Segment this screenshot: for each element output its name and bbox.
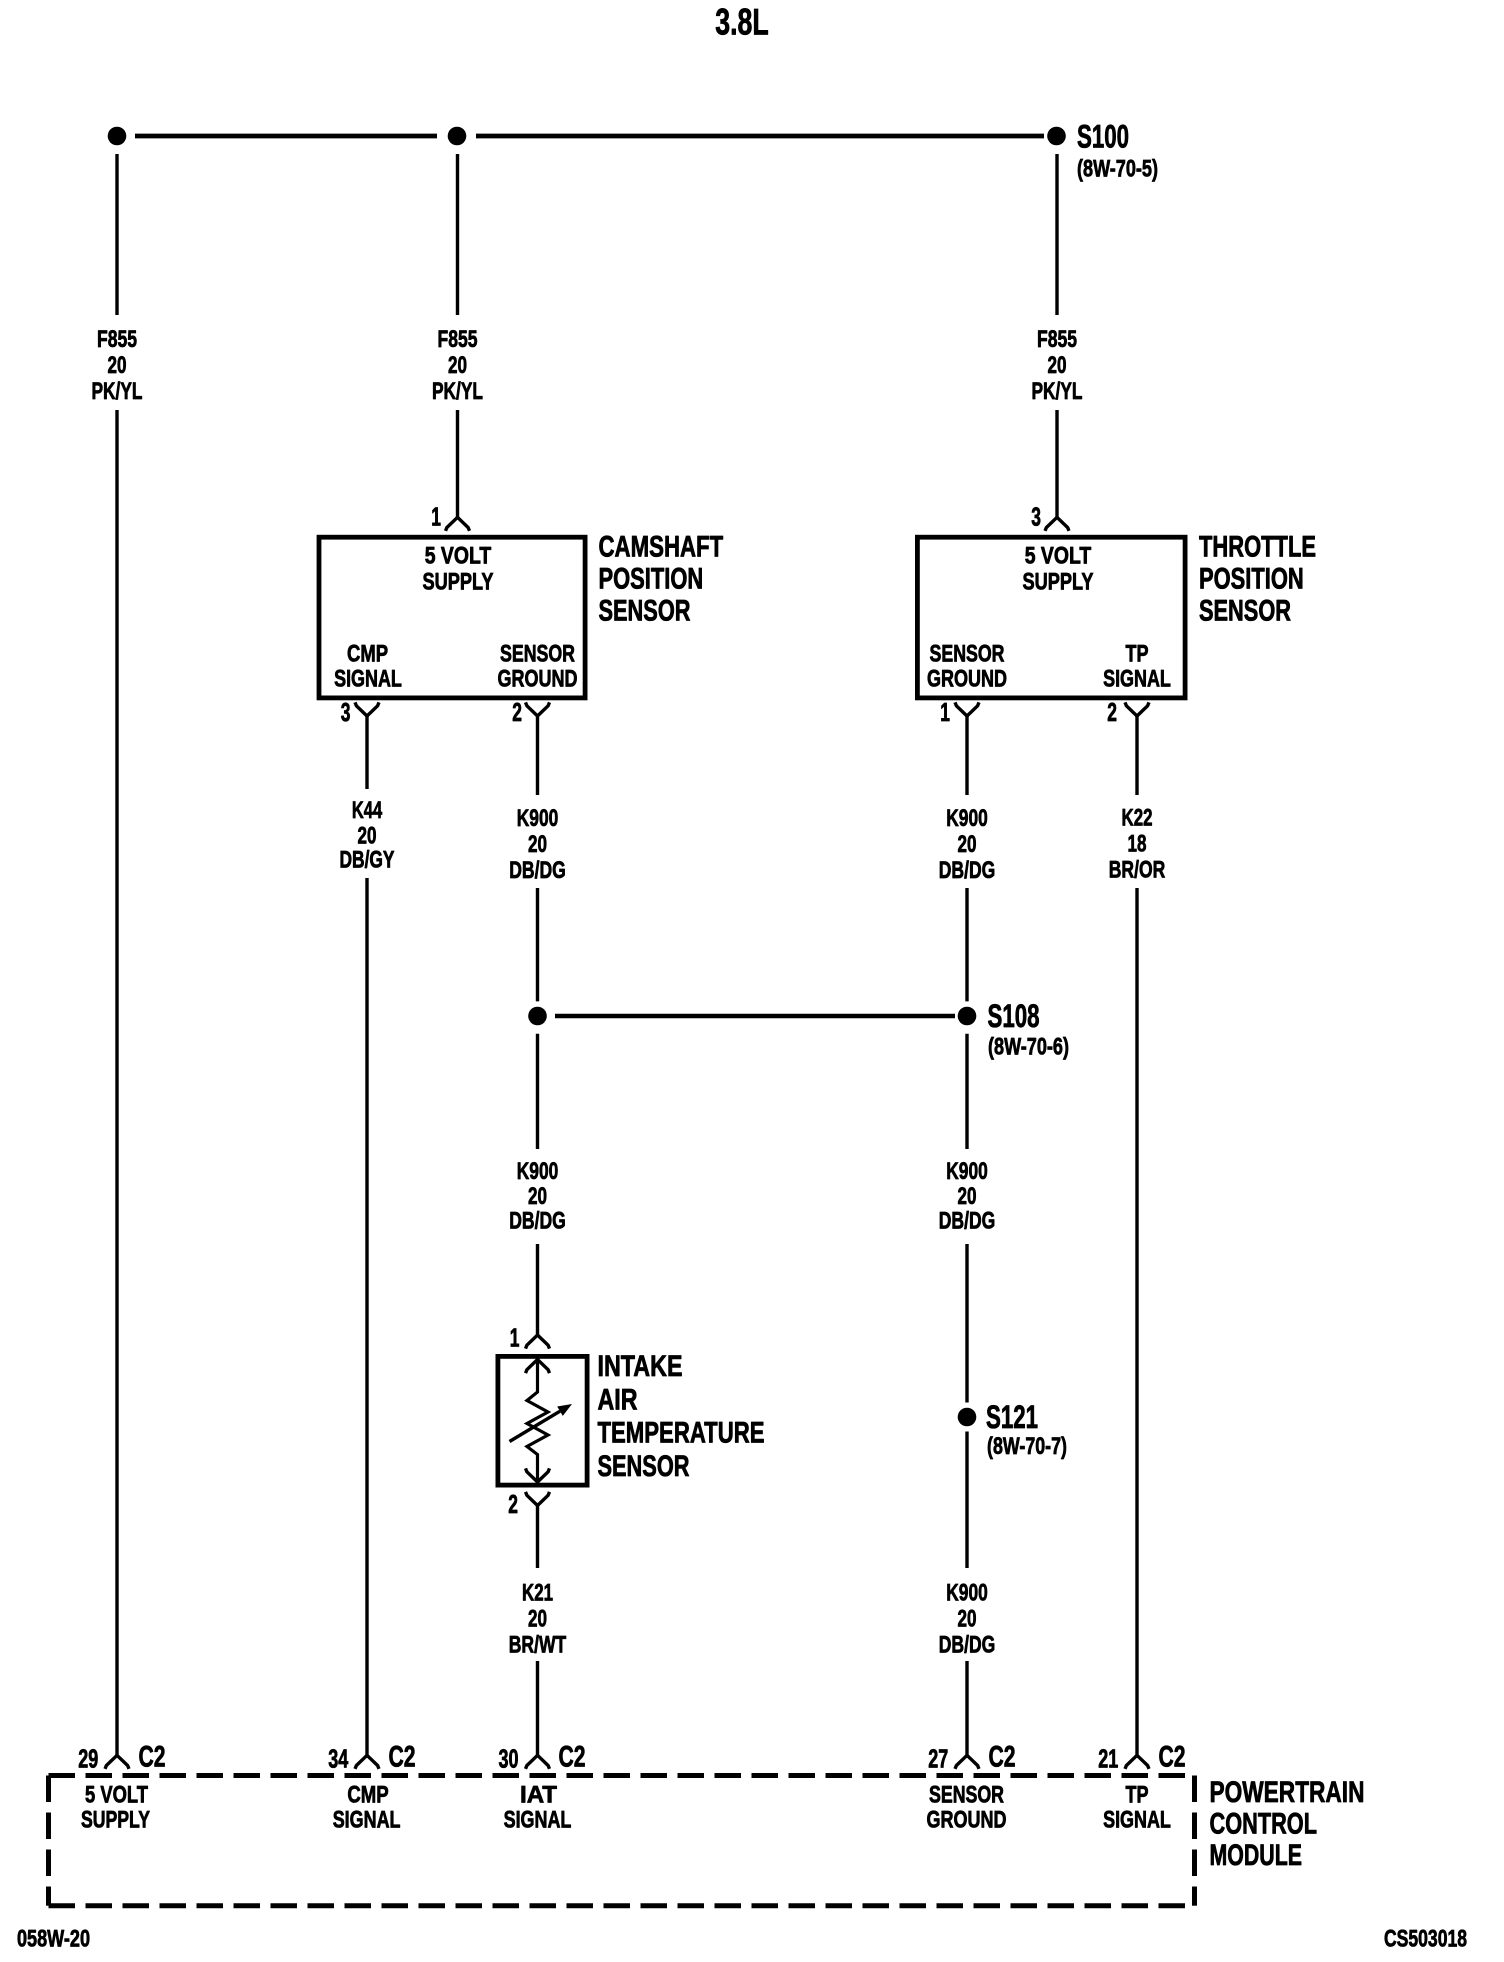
svg-text:CS503018: CS503018 (1384, 1926, 1467, 1953)
svg-text:K900: K900 (517, 805, 559, 832)
pin 1 TP sensor-ground connector (940, 699, 979, 727)
wire F855 left segment (115, 154, 118, 1756)
svg-text:5 VOLT: 5 VOLT (425, 543, 492, 570)
label THROTTLE POSITION SENSOR (1199, 531, 1316, 628)
junction dot left bus (108, 127, 127, 146)
svg-text:20: 20 (358, 823, 377, 850)
svg-text:K900: K900 (946, 1580, 988, 1607)
svg-text:SIGNAL: SIGNAL (333, 1807, 401, 1834)
svg-text:POSITION: POSITION (1199, 563, 1304, 596)
label TP SIGNAL (1103, 641, 1171, 693)
svg-text:TEMPERATURE: TEMPERATURE (598, 1417, 765, 1450)
svg-text:20: 20 (528, 1606, 547, 1633)
pin 1 intake air temperature sensor connector (510, 1325, 550, 1353)
label wire K900 20 DB/DG mid-left (509, 1158, 566, 1235)
wire F855 right segment (1055, 154, 1058, 518)
svg-text:CMP: CMP (347, 1782, 388, 1809)
svg-text:K900: K900 (517, 1158, 559, 1185)
svg-text:20: 20 (528, 831, 547, 858)
pin 34 C2 PCM CMP signal (328, 1741, 415, 1774)
wire K900 below S121 (965, 1432, 968, 1757)
label wire K22 18 BR/OR (1109, 805, 1166, 884)
wire F855 middle segment (456, 154, 459, 518)
svg-text:20: 20 (1048, 352, 1067, 379)
svg-text:3: 3 (1031, 504, 1041, 532)
svg-text:IAT: IAT (520, 1782, 557, 1809)
label SENSOR GROUND (TP) (927, 641, 1007, 693)
svg-text:DB/GY: DB/GY (340, 847, 395, 874)
svg-text:1: 1 (431, 504, 441, 532)
svg-text:SIGNAL: SIGNAL (1103, 666, 1171, 693)
svg-text:27: 27 (928, 1746, 948, 1774)
svg-text:21: 21 (1098, 1746, 1118, 1774)
svg-text:SENSOR: SENSOR (1199, 595, 1291, 628)
svg-text:SENSOR: SENSOR (929, 1782, 1004, 1809)
svg-text:F855: F855 (97, 326, 137, 353)
label CAMSHAFT POSITION SENSOR (599, 531, 724, 628)
svg-text:POSITION: POSITION (599, 563, 704, 596)
svg-text:BR/WT: BR/WT (509, 1632, 567, 1659)
svg-text:(8W-70-6): (8W-70-6) (988, 1034, 1069, 1061)
label SENSOR GROUND (PCM) (927, 1782, 1007, 1834)
svg-text:CMP: CMP (347, 641, 388, 668)
pin 29 C2 PCM 5-volt supply (78, 1741, 165, 1774)
pin 21 C2 PCM TP signal (1098, 1741, 1185, 1774)
svg-text:(8W-70-7): (8W-70-7) (987, 1433, 1067, 1460)
intake air temperature sensor box (498, 1356, 587, 1485)
wire S108 tie horizontal (555, 1014, 955, 1018)
svg-text:S108: S108 (988, 998, 1040, 1034)
pin 2 CMP sensor-ground connector (512, 699, 549, 727)
svg-text:34: 34 (328, 1746, 349, 1774)
splice S121 (958, 1399, 1067, 1460)
label wire K44 20 DB/GY (340, 797, 395, 874)
svg-text:INTAKE: INTAKE (598, 1350, 683, 1383)
svg-text:(8W-70-5): (8W-70-5) (1077, 156, 1158, 183)
pin 30 C2 PCM IAT signal (499, 1741, 586, 1774)
svg-text:DB/DG: DB/DG (939, 857, 996, 884)
svg-text:SUPPLY: SUPPLY (423, 569, 494, 596)
svg-text:CAMSHAFT: CAMSHAFT (599, 531, 724, 564)
splice S100 (1047, 119, 1158, 183)
svg-text:3.8L: 3.8L (715, 2, 769, 43)
svg-text:GROUND: GROUND (927, 1807, 1007, 1834)
label wire K21 20 BR/WT (509, 1580, 567, 1659)
label wire K900 20 DB/DG upper-right (939, 805, 996, 884)
wire K900 to S121 (965, 1034, 968, 1403)
svg-text:20: 20 (958, 831, 977, 858)
label POWERTRAIN CONTROL MODULE (1210, 1776, 1365, 1872)
svg-text:DB/DG: DB/DG (509, 1208, 566, 1235)
wire K900 to IAT sensor (536, 1034, 539, 1336)
wire K900 from TP pin 1 (965, 715, 968, 1001)
svg-text:PK/YL: PK/YL (92, 378, 143, 405)
camshaft position sensor box (319, 537, 585, 698)
label wire F855 20 PK/YL left (92, 326, 143, 405)
svg-text:20: 20 (958, 1606, 977, 1633)
svg-text:SIGNAL: SIGNAL (504, 1807, 572, 1834)
wire K900 from CMP pin 2 (536, 715, 539, 1001)
svg-text:TP: TP (1126, 641, 1149, 668)
svg-text:30: 30 (499, 1746, 519, 1774)
junction dot S108 left (528, 1007, 547, 1026)
svg-text:20: 20 (958, 1183, 977, 1210)
svg-text:GROUND: GROUND (498, 666, 578, 693)
label SENSOR GROUND (CMP) (498, 641, 578, 693)
label CMP SIGNAL (PCM) (333, 1782, 401, 1834)
thermistor element IAT (510, 1360, 573, 1481)
svg-text:S100: S100 (1077, 119, 1129, 155)
svg-text:PK/YL: PK/YL (1032, 378, 1083, 405)
svg-text:BR/OR: BR/OR (1109, 857, 1166, 884)
svg-text:2: 2 (508, 1491, 518, 1519)
label wire F855 20 PK/YL right (1032, 326, 1083, 405)
svg-text:1: 1 (510, 1325, 520, 1353)
wire K44 segment (365, 715, 368, 1756)
svg-text:20: 20 (528, 1183, 547, 1210)
svg-text:SENSOR: SENSOR (500, 641, 575, 668)
pin 2 TP signal connector (1107, 699, 1149, 727)
svg-text:SIGNAL: SIGNAL (1103, 1807, 1171, 1834)
connector chevron inside IAT top (526, 1360, 550, 1374)
label 5 VOLT SUPPLY (CMP) (423, 543, 494, 596)
connector chevron inside IAT bottom (526, 1468, 550, 1482)
svg-text:THROTTLE: THROTTLE (1199, 531, 1316, 564)
svg-text:K900: K900 (946, 805, 988, 832)
svg-text:GROUND: GROUND (927, 666, 1007, 693)
wire K21 segment (536, 1505, 539, 1757)
svg-text:5 VOLT: 5 VOLT (85, 1782, 148, 1809)
label TP SIGNAL (PCM) (1103, 1782, 1171, 1834)
powertrain control module box (dashed) (49, 1776, 1195, 1906)
svg-text:K21: K21 (522, 1580, 553, 1607)
throttle position sensor box (917, 537, 1185, 698)
svg-text:MODULE: MODULE (1210, 1839, 1303, 1872)
svg-text:K44: K44 (352, 797, 383, 824)
svg-text:F855: F855 (438, 326, 478, 353)
label CMP SIGNAL (334, 641, 402, 693)
svg-text:SENSOR: SENSOR (598, 1450, 690, 1483)
svg-text:POWERTRAIN: POWERTRAIN (1210, 1776, 1365, 1809)
svg-text:F855: F855 (1037, 326, 1077, 353)
label 5 VOLT SUPPLY (PCM) (81, 1782, 150, 1834)
pin 3 CMP signal connector (341, 699, 379, 727)
svg-text:2: 2 (1107, 699, 1117, 727)
svg-text:5 VOLT: 5 VOLT (1025, 543, 1092, 570)
svg-text:SUPPLY: SUPPLY (81, 1807, 150, 1834)
svg-text:20: 20 (448, 352, 467, 379)
label wire K900 20 DB/DG upper-left (509, 805, 566, 884)
label wire F855 20 PK/YL middle (432, 326, 483, 405)
svg-text:C2: C2 (389, 1741, 416, 1774)
svg-text:K22: K22 (1122, 805, 1153, 832)
svg-text:C2: C2 (559, 1741, 586, 1774)
svg-text:DB/DG: DB/DG (939, 1632, 996, 1659)
label IAT SIGNAL (PCM) (504, 1782, 572, 1834)
svg-text:C2: C2 (139, 1741, 166, 1774)
pin 1 camshaft position sensor connector (431, 504, 469, 532)
svg-text:AIR: AIR (598, 1384, 638, 1417)
svg-text:SENSOR: SENSOR (599, 595, 691, 628)
svg-text:DB/DG: DB/DG (939, 1208, 996, 1235)
svg-text:PK/YL: PK/YL (432, 378, 483, 405)
junction dot middle bus (448, 127, 467, 146)
svg-text:TP: TP (1126, 1782, 1149, 1809)
svg-text:3: 3 (341, 699, 351, 727)
svg-text:C2: C2 (989, 1741, 1016, 1774)
splice S108 (958, 998, 1069, 1061)
label 5 VOLT SUPPLY (TP) (1023, 543, 1094, 596)
svg-text:CONTROL: CONTROL (1210, 1808, 1318, 1841)
svg-text:K900: K900 (946, 1158, 988, 1185)
label wire K900 20 DB/DG mid-right (939, 1158, 996, 1235)
pin 3 throttle position sensor connector (1031, 504, 1069, 532)
svg-text:058W-20: 058W-20 (17, 1926, 90, 1953)
svg-text:SIGNAL: SIGNAL (334, 666, 402, 693)
svg-text:C2: C2 (1159, 1741, 1186, 1774)
wire K22 segment (1135, 715, 1138, 1756)
svg-text:SUPPLY: SUPPLY (1023, 569, 1094, 596)
wire F855 bus horizontal (135, 134, 1044, 139)
svg-text:S121: S121 (986, 1399, 1038, 1435)
label INTAKE AIR TEMPERATURE SENSOR (598, 1350, 765, 1483)
svg-text:20: 20 (108, 352, 127, 379)
svg-text:29: 29 (78, 1746, 98, 1774)
svg-text:18: 18 (1128, 831, 1147, 858)
label wire K900 20 DB/DG lower (939, 1580, 996, 1659)
pin 27 C2 PCM sensor ground (928, 1741, 1015, 1774)
svg-text:2: 2 (512, 699, 522, 727)
svg-text:DB/DG: DB/DG (509, 857, 566, 884)
svg-text:1: 1 (940, 699, 950, 727)
svg-text:SENSOR: SENSOR (930, 641, 1005, 668)
pin 2 intake air temperature sensor connector (508, 1491, 549, 1519)
